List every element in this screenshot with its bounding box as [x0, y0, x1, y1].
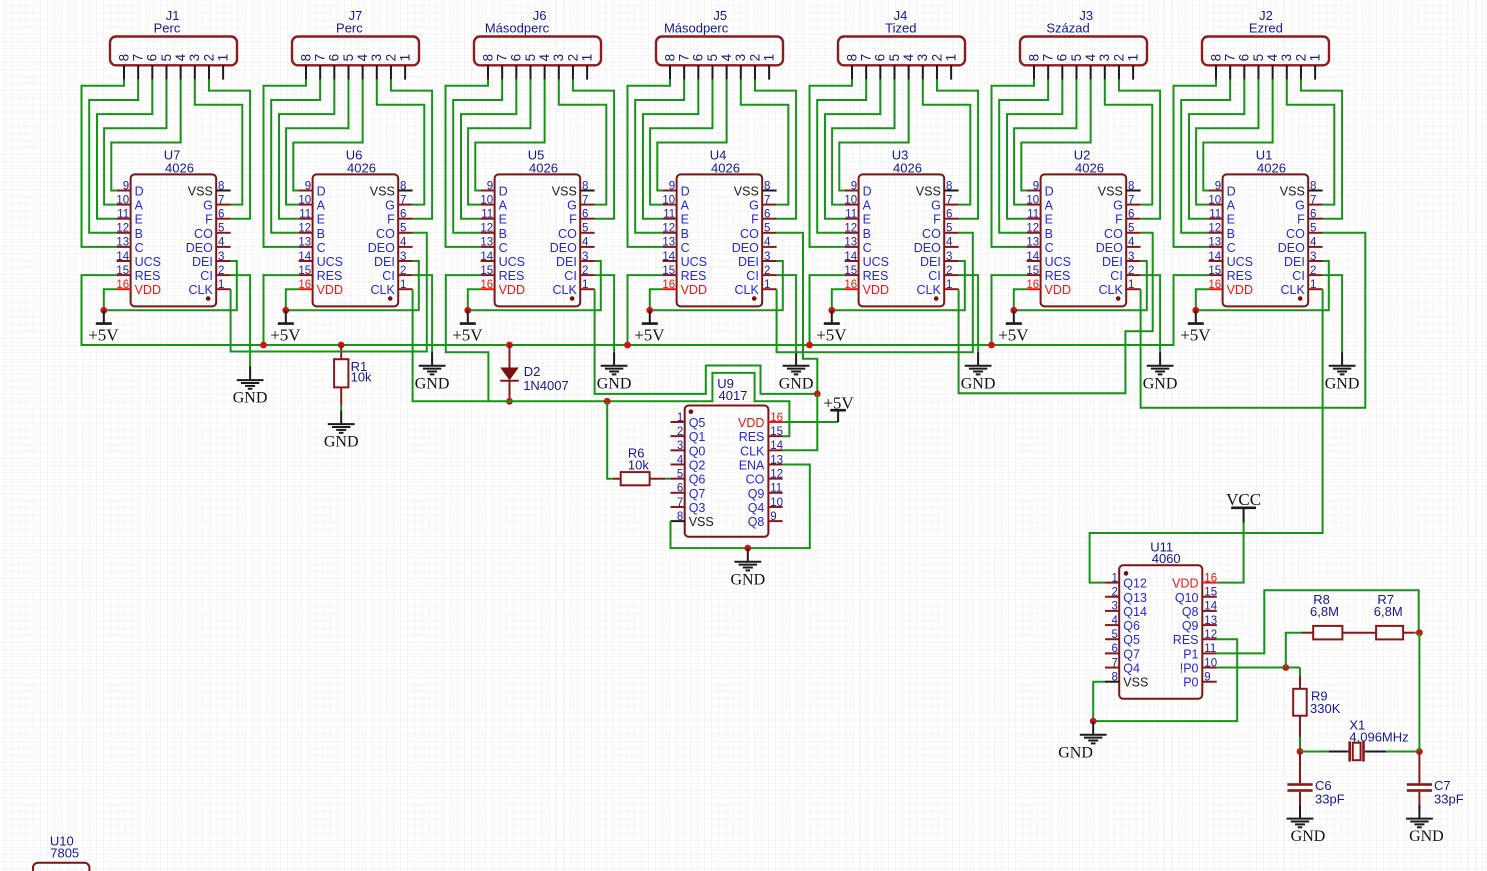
power +5V U4 [634, 307, 665, 345]
svg-text:8: 8 [400, 180, 406, 192]
capacitor C6 [1287, 783, 1312, 792]
svg-text:6: 6 [145, 54, 160, 62]
svg-text:GND: GND [961, 375, 996, 392]
resistor R6 [621, 472, 650, 485]
wire J2 pin6 to U pin11 [1189, 79, 1244, 218]
wire U2 RES to rail [992, 275, 1027, 345]
capacitor C7 [1407, 783, 1432, 792]
ground GND U9 [730, 548, 765, 588]
svg-text:16: 16 [298, 279, 311, 291]
svg-text:4026: 4026 [165, 161, 194, 176]
svg-text:9: 9 [1204, 672, 1210, 684]
svg-text:+5V: +5V [634, 325, 665, 344]
svg-text:15: 15 [1208, 265, 1221, 277]
wire U1 VDD to +5V [1196, 289, 1209, 310]
IC U2 right pin stubs 8-1 [1126, 191, 1140, 290]
svg-text:VDD: VDD [863, 283, 889, 297]
svg-text:12: 12 [480, 223, 493, 235]
svg-text:VSS: VSS [916, 185, 941, 199]
connector J1 body [110, 37, 237, 66]
junction U4 RES [624, 342, 631, 349]
svg-text:DEO: DEO [368, 241, 395, 255]
svg-text:A: A [1045, 199, 1054, 213]
wire U2 CI to GND [1141, 275, 1161, 352]
wire J7 pin8 to U pin13 [264, 79, 307, 247]
label R1 10k [351, 359, 372, 385]
svg-text:7: 7 [1041, 54, 1056, 62]
svg-text:11: 11 [1209, 209, 1221, 221]
wire U11 P1 to R7 [1217, 590, 1419, 653]
svg-text:8: 8 [662, 54, 677, 62]
svg-text:5: 5 [1069, 54, 1084, 62]
svg-text:4.096MHz: 4.096MHz [1349, 730, 1408, 745]
svg-text:10: 10 [1208, 194, 1221, 206]
svg-text:2: 2 [1111, 587, 1117, 599]
wire J6 pin7 to U pin12 [453, 79, 502, 233]
svg-text:7: 7 [131, 54, 146, 62]
IC U2 right pin names [1096, 185, 1124, 298]
wire U3 CI to GND [959, 275, 979, 352]
svg-text:2: 2 [400, 265, 406, 277]
svg-text:CI: CI [200, 269, 213, 283]
svg-text:13: 13 [844, 237, 857, 249]
svg-text:1N4007: 1N4007 [523, 378, 569, 393]
svg-text:7: 7 [218, 194, 224, 206]
svg-text:14: 14 [662, 251, 675, 263]
connector J5 pin stubs [670, 65, 769, 79]
svg-text:Q14: Q14 [1123, 605, 1147, 619]
svg-text:7: 7 [582, 194, 588, 206]
svg-text:RES: RES [863, 269, 889, 283]
wire J6 pin5 to U pin10 [468, 79, 530, 204]
svg-text:15: 15 [662, 265, 675, 277]
IC U7 label [164, 147, 194, 175]
svg-text:A: A [681, 199, 690, 213]
wire U4 CI to GND [777, 275, 797, 352]
svg-text:GND: GND [597, 375, 632, 392]
svg-text:VCC: VCC [1226, 490, 1261, 509]
svg-text:9: 9 [770, 511, 776, 523]
svg-text:9: 9 [1215, 180, 1221, 192]
svg-text:5: 5 [677, 468, 683, 480]
svg-text:GND: GND [233, 390, 268, 407]
svg-text:Tized: Tized [885, 20, 916, 35]
svg-text:1: 1 [580, 54, 595, 62]
wire J6 pin8 to U pin13 [446, 79, 489, 247]
svg-text:DEO: DEO [732, 241, 759, 255]
svg-text:12: 12 [770, 468, 783, 480]
IC U9 right pin numbers [770, 412, 783, 523]
svg-text:2: 2 [677, 426, 683, 438]
IC U7 left pin stubs 9-16 [117, 191, 131, 290]
svg-text:10: 10 [770, 497, 783, 509]
IC U3 left pin names [863, 185, 889, 298]
IC U9 right pin names [738, 416, 765, 529]
IC U1 label [1256, 147, 1286, 175]
connector J1 pin stubs [124, 65, 223, 79]
wire J1 pin6 to U pin11 [97, 79, 152, 218]
svg-text:6: 6 [1310, 209, 1316, 221]
wire U4 RES to rail [628, 275, 663, 345]
svg-text:P0: P0 [1183, 676, 1198, 690]
IC U5 body [495, 174, 581, 306]
svg-text:4: 4 [901, 53, 916, 61]
wire reset rail RES [82, 275, 1209, 345]
svg-text:2: 2 [946, 265, 952, 277]
svg-text:3: 3 [1279, 54, 1294, 62]
svg-text:DEO: DEO [914, 241, 941, 255]
power +5V U5 [452, 307, 483, 345]
connector J7 pin numbers 8-1 [298, 53, 412, 61]
svg-text:D: D [317, 185, 326, 199]
wire J2 pin5 to U pin10 [1196, 79, 1258, 204]
svg-text:15: 15 [1026, 265, 1039, 277]
svg-text:13: 13 [1208, 237, 1221, 249]
wire J4 pin8 to U pin13 [810, 79, 853, 247]
wire J3 pin5 to U pin10 [1014, 79, 1076, 204]
svg-text:GND: GND [415, 375, 450, 392]
svg-text:+5V: +5V [816, 325, 847, 344]
svg-text:13: 13 [770, 454, 783, 466]
wire R7 to X1 [1418, 633, 1420, 752]
svg-text:6,8M: 6,8M [1374, 604, 1403, 619]
svg-text:CO: CO [1104, 227, 1123, 241]
svg-text:5: 5 [523, 54, 538, 62]
svg-text:DEI: DEI [1102, 255, 1123, 269]
svg-text:CLK: CLK [740, 444, 765, 458]
svg-text:7: 7 [1128, 194, 1134, 206]
svg-text:RES: RES [1173, 633, 1199, 647]
svg-text:F: F [1297, 213, 1305, 227]
svg-text:G: G [1295, 199, 1305, 213]
svg-text:3: 3 [677, 440, 683, 452]
svg-text:6: 6 [582, 209, 588, 221]
svg-text:4060: 4060 [1152, 551, 1181, 566]
svg-text:8: 8 [582, 180, 588, 192]
svg-text:G: G [931, 199, 941, 213]
svg-text:1: 1 [944, 54, 959, 62]
svg-text:GND: GND [1325, 375, 1360, 392]
svg-text:11: 11 [299, 209, 311, 221]
svg-text:6: 6 [946, 209, 952, 221]
IC U4 left pin numbers [662, 180, 675, 291]
IC U4 left pin stubs 9-16 [663, 191, 677, 290]
IC U11 right pin stubs 16-9 [1202, 583, 1217, 682]
connector J5 pin numbers 8-1 [662, 53, 776, 61]
ground GND U1 [1325, 352, 1360, 392]
connector J2 body [1202, 37, 1329, 66]
svg-text:D2: D2 [524, 364, 541, 379]
IC U7 clock marker dot [206, 296, 211, 301]
power +5V U1 [1180, 307, 1211, 345]
svg-text:4: 4 [677, 454, 684, 466]
svg-text:9: 9 [305, 180, 311, 192]
connector J2 pin stubs [1216, 65, 1315, 79]
svg-text:6: 6 [218, 209, 224, 221]
svg-text:7: 7 [1223, 54, 1238, 62]
svg-text:3: 3 [400, 251, 406, 263]
svg-text:6: 6 [1111, 643, 1117, 655]
svg-text:1: 1 [400, 279, 406, 291]
wire U2 CLK to U1 CO [1141, 233, 1366, 408]
svg-text:6: 6 [873, 54, 888, 62]
svg-text:15: 15 [770, 426, 783, 438]
IC U3 clock marker dot [934, 296, 939, 301]
junction X1 right [1416, 748, 1423, 755]
IC U6 left pin stubs 9-16 [299, 191, 313, 290]
svg-text:10k: 10k [628, 457, 649, 472]
svg-text:B: B [863, 227, 871, 241]
svg-text:B: B [1045, 227, 1053, 241]
IC U11 left pin stubs 1-8 [1105, 583, 1119, 682]
svg-text:UCS: UCS [499, 255, 525, 269]
svg-text:10: 10 [480, 194, 493, 206]
svg-text:VDD: VDD [317, 283, 343, 297]
wire J7 pin7 to U pin12 [271, 79, 320, 233]
wire U4 +5V to DEI [650, 261, 783, 310]
svg-text:Q0: Q0 [689, 444, 706, 458]
svg-text:A: A [317, 199, 326, 213]
wire U6 CLK reset net [413, 289, 790, 436]
IC U11 pin1 marker dot [1124, 571, 1129, 576]
svg-text:4026: 4026 [1075, 161, 1104, 176]
svg-text:F: F [569, 213, 577, 227]
svg-text:C: C [499, 241, 508, 255]
svg-text:14: 14 [480, 251, 493, 263]
svg-text:2: 2 [383, 54, 398, 62]
label R6 10k [628, 446, 649, 473]
svg-text:A: A [863, 199, 872, 213]
svg-text:4: 4 [1128, 237, 1135, 249]
connector J6 body [474, 37, 601, 66]
IC U10 label [50, 834, 79, 861]
IC U9 pin1 marker dot [689, 409, 694, 414]
junction U2 RES [988, 342, 995, 349]
svg-text:8: 8 [844, 54, 859, 62]
wire J3 pin7 to U pin12 [999, 79, 1048, 233]
svg-text:E: E [135, 213, 143, 227]
svg-text:Q8: Q8 [748, 515, 765, 529]
svg-text:14: 14 [298, 251, 311, 263]
svg-text:10: 10 [298, 194, 311, 206]
svg-text:4: 4 [1111, 615, 1118, 627]
svg-text:VDD: VDD [1045, 283, 1071, 297]
svg-text:Q9: Q9 [1182, 619, 1199, 633]
svg-text:CI: CI [928, 269, 941, 283]
connector J4 pin numbers 8-1 [844, 53, 958, 61]
svg-text:4: 4 [218, 237, 225, 249]
svg-text:8: 8 [116, 54, 131, 62]
svg-text:8: 8 [1310, 180, 1316, 192]
wire J7 pin4 to U pin9 [293, 79, 362, 190]
svg-text:CLK: CLK [552, 283, 577, 297]
svg-text:+5V: +5V [270, 325, 301, 344]
svg-text:VSS: VSS [1098, 185, 1123, 199]
power VCC [1226, 490, 1261, 523]
svg-text:Q6: Q6 [689, 473, 706, 487]
svg-text:!P0: !P0 [1180, 662, 1199, 676]
svg-text:B: B [499, 227, 507, 241]
svg-text:6: 6 [509, 54, 524, 62]
svg-text:8: 8 [764, 180, 770, 192]
svg-text:Q6: Q6 [1123, 619, 1140, 633]
capacitor C7 lead2 [1418, 792, 1420, 809]
svg-text:Q9: Q9 [748, 487, 765, 501]
resistor R8-R7 link [1342, 632, 1376, 634]
junction R6 tap [604, 398, 611, 405]
wire U4 CO to node [777, 233, 818, 394]
label D2 1N4007 [523, 364, 569, 393]
resistor R8 lead [1301, 632, 1313, 634]
svg-text:B: B [681, 227, 689, 241]
wire U5 RES jog [446, 275, 489, 401]
wire J7 pin2 to U pin6 F [391, 79, 432, 218]
svg-text:8: 8 [480, 54, 495, 62]
svg-text:9: 9 [123, 180, 129, 192]
svg-text:F: F [751, 213, 759, 227]
svg-text:F: F [1115, 213, 1123, 227]
wire U4 CLK to U3 CO [777, 233, 973, 352]
IC U7 right pin stubs 8-1 [216, 191, 230, 290]
svg-text:7: 7 [859, 54, 874, 62]
IC U6 right pin stubs 8-1 [398, 191, 412, 290]
svg-text:CI: CI [382, 269, 395, 283]
IC U3 right pin names [914, 185, 942, 298]
svg-text:3: 3 [764, 251, 770, 263]
svg-text:7805: 7805 [50, 846, 79, 861]
IC U6 body [313, 174, 399, 306]
wire J6 pin6 to U pin11 [461, 79, 516, 218]
IC U5 clock marker dot [570, 296, 575, 301]
svg-text:A: A [1227, 199, 1236, 213]
IC U2 left pin stubs 9-16 [1027, 191, 1041, 290]
svg-text:B: B [135, 227, 143, 241]
connector J7 label [336, 8, 363, 35]
wire J2 pin2 to U pin6 F [1301, 79, 1342, 218]
svg-text:UCS: UCS [1045, 255, 1071, 269]
wire J6 pin4 to U pin9 [475, 79, 544, 190]
svg-text:Q4: Q4 [748, 501, 765, 515]
IC U6 left pin names [317, 185, 343, 298]
svg-text:VDD: VDD [1172, 577, 1198, 591]
IC U11 left pin names [1123, 577, 1148, 690]
svg-text:4026: 4026 [529, 161, 558, 176]
IC U5 left pin numbers [480, 180, 493, 291]
svg-text:CO: CO [740, 227, 759, 241]
wire J2 pin8 to U pin13 [1174, 79, 1217, 247]
resistor R1 [334, 359, 348, 387]
svg-text:3: 3 [1111, 601, 1117, 613]
IC U4 clock marker dot [752, 296, 757, 301]
wire J3 pin3 to U pin7 G [1105, 79, 1153, 204]
IC U7 body [131, 174, 217, 306]
svg-text:3: 3 [1097, 54, 1112, 62]
svg-text:D: D [135, 185, 144, 199]
ground GND U4 [779, 352, 814, 392]
svg-text:8: 8 [946, 180, 952, 192]
svg-text:VSS: VSS [188, 185, 213, 199]
svg-text:4026: 4026 [1257, 161, 1286, 176]
resistor R8 [1313, 626, 1342, 640]
wire U6 CI to GND [413, 275, 433, 352]
svg-text:DEI: DEI [374, 255, 395, 269]
IC U4 body [677, 174, 763, 306]
svg-text:Ezred: Ezred [1249, 20, 1283, 35]
power +5V U7 [88, 307, 119, 345]
svg-text:5: 5 [341, 54, 356, 62]
svg-text:4: 4 [764, 237, 771, 249]
svg-text:8: 8 [1111, 672, 1117, 684]
svg-text:CO: CO [194, 227, 213, 241]
IC U9 left pin numbers [677, 412, 684, 523]
svg-text:6: 6 [691, 54, 706, 62]
svg-text:Q4: Q4 [1123, 662, 1140, 676]
IC U4 right pin names [732, 185, 760, 298]
svg-text:8: 8 [1128, 180, 1134, 192]
wire U6 +5V to DEI [286, 261, 419, 310]
label C6 33pF [1315, 778, 1345, 806]
wire J6 pin2 to U pin6 F [573, 79, 614, 218]
svg-text:16: 16 [1204, 572, 1217, 584]
svg-text:4: 4 [355, 53, 370, 61]
svg-text:11: 11 [845, 209, 857, 221]
svg-text:4017: 4017 [719, 388, 748, 403]
svg-text:2: 2 [1293, 54, 1308, 62]
svg-text:DEI: DEI [738, 255, 759, 269]
power +5V U3 [816, 307, 847, 345]
svg-text:GND: GND [1143, 375, 1178, 392]
IC U6 right pin numbers [400, 180, 407, 291]
svg-text:15: 15 [298, 265, 311, 277]
svg-text:5: 5 [582, 223, 588, 235]
wire J2 pin7 to U pin12 [1181, 79, 1230, 233]
svg-text:1: 1 [762, 54, 777, 62]
svg-text:9: 9 [669, 180, 675, 192]
svg-text:CI: CI [746, 269, 759, 283]
svg-text:GND: GND [779, 375, 814, 392]
svg-text:2: 2 [764, 265, 770, 277]
svg-text:3: 3 [915, 54, 930, 62]
svg-text:12: 12 [1204, 629, 1217, 641]
svg-text:+5V: +5V [1180, 325, 1211, 344]
label C7 33pF [1434, 778, 1464, 806]
wire U3 +5V to DEI [832, 261, 965, 310]
svg-text:3: 3 [946, 251, 952, 263]
wire U11 RES to GND [1093, 639, 1237, 721]
wire U2 VDD to +5V [1014, 289, 1027, 310]
svg-text:14: 14 [1026, 251, 1039, 263]
svg-text:5: 5 [946, 223, 952, 235]
svg-text:2: 2 [1111, 54, 1126, 62]
wire J7 pin6 to U pin11 [279, 79, 334, 218]
wire U5 +5V to DEI [468, 261, 601, 310]
svg-text:4: 4 [719, 53, 734, 61]
svg-text:16: 16 [1026, 279, 1039, 291]
svg-text:8: 8 [298, 54, 313, 62]
ground GND R1 [324, 411, 359, 451]
connector J4 label [885, 8, 916, 35]
svg-text:16: 16 [480, 279, 493, 291]
power +5V U2 [998, 307, 1029, 345]
svg-text:6,8M: 6,8M [1310, 604, 1339, 619]
junction U11 GND [1090, 718, 1097, 725]
svg-text:G: G [203, 199, 213, 213]
svg-text:D: D [1227, 185, 1236, 199]
svg-text:C: C [1045, 241, 1054, 255]
svg-text:CLK: CLK [1280, 283, 1305, 297]
svg-text:3: 3 [582, 251, 588, 263]
svg-text:4: 4 [537, 53, 552, 61]
